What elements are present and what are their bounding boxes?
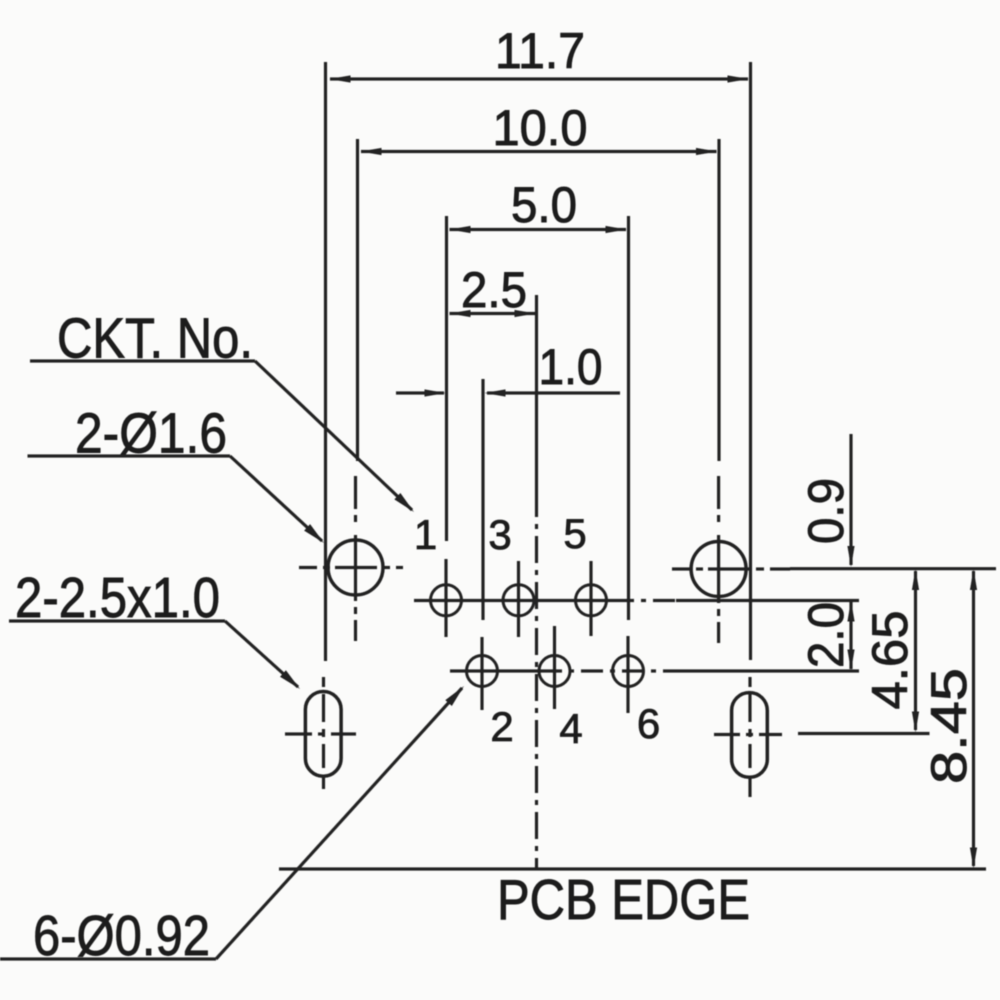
svg-text:6: 6: [637, 700, 660, 747]
svg-text:2.0: 2.0: [798, 602, 854, 668]
svg-text:2.5: 2.5: [461, 262, 527, 318]
svg-text:4: 4: [559, 705, 582, 752]
svg-text:4.65: 4.65: [862, 611, 918, 710]
svg-text:5.0: 5.0: [511, 177, 577, 233]
svg-text:PCB EDGE: PCB EDGE: [497, 868, 750, 932]
svg-text:2-2.5x1.0: 2-2.5x1.0: [15, 566, 220, 630]
svg-text:10.0: 10.0: [493, 100, 588, 156]
svg-text:2-Ø1.6: 2-Ø1.6: [75, 402, 227, 466]
svg-text:8.45: 8.45: [921, 668, 977, 784]
svg-text:6-Ø0.92: 6-Ø0.92: [33, 904, 210, 968]
svg-text:1: 1: [414, 511, 437, 558]
svg-text:CKT. No.: CKT. No.: [57, 307, 253, 371]
svg-text:2: 2: [490, 703, 513, 750]
svg-text:3: 3: [488, 511, 511, 558]
svg-text:11.7: 11.7: [495, 23, 585, 79]
svg-text:5: 5: [563, 510, 586, 557]
svg-text:1.0: 1.0: [539, 339, 603, 395]
svg-text:0.9: 0.9: [798, 478, 854, 544]
